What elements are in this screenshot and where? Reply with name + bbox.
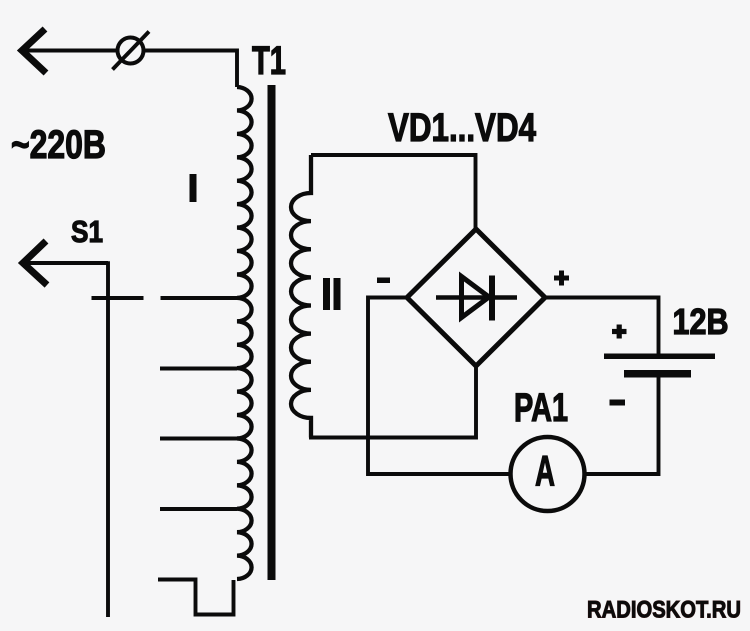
- svg-text:S1: S1: [71, 214, 103, 249]
- wire primary tap 2: [160, 367, 237, 371]
- polarity minus bridge output: [377, 278, 390, 284]
- battery minus label: [610, 400, 626, 406]
- wire primary bottom end: [158, 580, 234, 615]
- wire ammeter to bridge minus: [368, 298, 511, 475]
- diode bridge VD1...VD4: [407, 229, 545, 366]
- svg-text:PA1: PA1: [514, 386, 568, 430]
- arrow mains terminal bottom: [23, 241, 47, 285]
- wire S1 shaft: [24, 261, 108, 265]
- svg-text:RADIOSKOT.RU: RADIOSKOT.RU: [587, 597, 741, 624]
- wire secondary top to bridge: [311, 155, 476, 229]
- wire mains top: [24, 51, 237, 88]
- label I: [190, 174, 197, 202]
- svg-text:12B: 12B: [673, 301, 729, 342]
- wire bridge bottom to secondary: [309, 366, 476, 438]
- arrow mains terminal top: [22, 29, 46, 73]
- polarity plus bridge output: [554, 271, 569, 286]
- battery GB1 12V: [604, 354, 715, 378]
- fuse FU1: [113, 32, 150, 70]
- ammeter PA1: [511, 437, 585, 511]
- wire primary tap 4: [160, 507, 237, 511]
- wire S1 vertical: [106, 261, 110, 617]
- transformer T1 primary winding I: [237, 87, 252, 579]
- battery plus label: [612, 325, 627, 339]
- wire primary tap 1: [161, 296, 238, 300]
- label II: [323, 278, 341, 310]
- wire primary tap 3: [160, 437, 237, 441]
- transformer T1 core: [268, 85, 276, 580]
- wire battery minus to ammeter: [585, 377, 659, 474]
- svg-text:VD1...VD4: VD1...VD4: [388, 106, 537, 150]
- transformer T1 secondary winding II: [291, 155, 311, 438]
- svg-text:~220B: ~220B: [11, 123, 106, 167]
- wire switch stub: [92, 296, 144, 300]
- svg-text:T1: T1: [252, 39, 286, 83]
- diode symbol: [436, 276, 517, 321]
- svg-text:A: A: [535, 448, 555, 496]
- wire bridge plus to battery: [545, 298, 659, 354]
